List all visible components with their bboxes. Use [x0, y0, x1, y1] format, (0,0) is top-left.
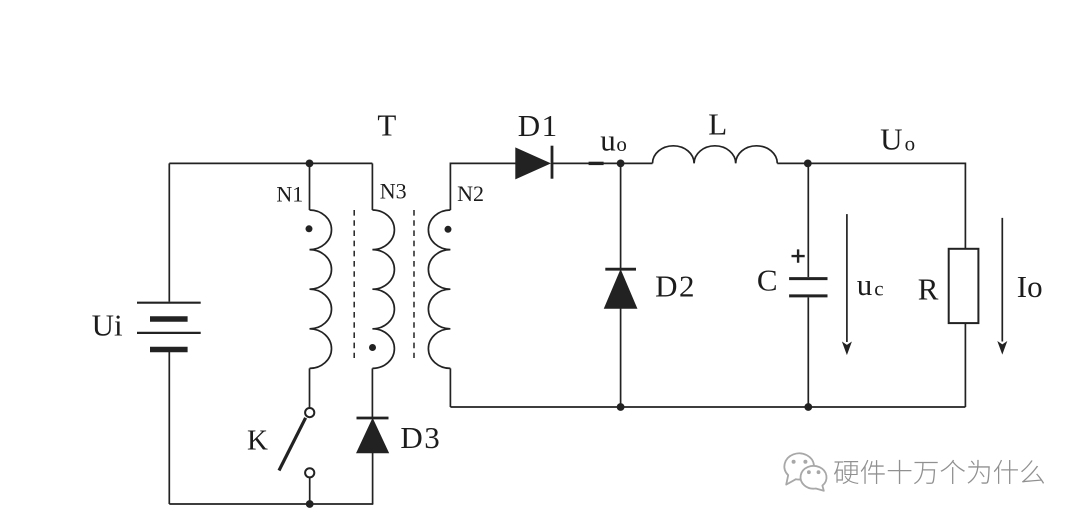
svg-text:N3: N3	[380, 179, 407, 204]
wire switch bottom to bottom rail	[309, 478, 311, 505]
svg-text:N2: N2	[457, 181, 484, 206]
svg-text:o: o	[616, 132, 627, 156]
svg-text:L: L	[708, 107, 727, 142]
diode D3	[357, 418, 389, 453]
transformer core dashed line left	[353, 210, 355, 358]
battery Ui plate long top	[137, 302, 201, 304]
svg-text:D2: D2	[655, 269, 696, 304]
diode D1	[516, 146, 552, 179]
wire node uo to inductor L	[621, 162, 653, 164]
capacitor C top plate	[789, 277, 827, 280]
svg-text:R: R	[918, 271, 939, 306]
wire top rail primary (Ui+ to N1/N3 tops)	[169, 162, 372, 164]
wire node uo down to D2 cathode	[620, 163, 622, 268]
switch K bottom contact circle	[305, 468, 314, 477]
wire node after L down to capacitor C	[807, 163, 809, 277]
wire inductor L to node Uo and right corner	[777, 163, 965, 407]
wire D1 cathode to node uo	[552, 162, 621, 164]
svg-text:u: u	[857, 267, 873, 302]
svg-text:c: c	[874, 276, 883, 300]
watermark wechat logo	[784, 453, 826, 490]
battery Ui plate short thick bottom	[150, 347, 188, 353]
svg-text:N1: N1	[276, 182, 303, 207]
arrow uc (capacitor voltage)	[842, 214, 852, 355]
svg-text:K: K	[247, 425, 268, 457]
junction node dot D2 bottom	[617, 403, 625, 411]
wire capacitor C bottom plate down to bottom rail	[807, 297, 809, 407]
wire from top rail down to N1 winding	[309, 163, 311, 210]
battery Ui plate short thick upper	[150, 316, 188, 322]
inductor L	[653, 146, 778, 164]
svg-text:D3: D3	[400, 420, 441, 455]
svg-text:o: o	[905, 132, 916, 156]
svg-text:Ui: Ui	[92, 307, 123, 342]
svg-text:T: T	[377, 107, 396, 142]
junction node dot C bottom	[804, 403, 812, 411]
wire N2 top up and right to D1 anode	[450, 163, 515, 210]
junction node dot at N1 top rail	[306, 160, 314, 168]
transformer core dashed line right	[413, 210, 415, 358]
junction node dot switch bottom rail	[306, 500, 314, 508]
watermark text 硬件十万个为什么	[834, 460, 1046, 486]
battery Ui plate long lower	[137, 332, 201, 334]
wire N2 bottom down to secondary bottom rail	[449, 368, 451, 407]
transformer winding N1	[310, 210, 332, 368]
wire from top rail down to N3 winding	[371, 163, 373, 210]
diode D2	[605, 269, 637, 308]
svg-text:C: C	[757, 263, 778, 298]
transformer winding N2	[428, 210, 450, 368]
phase dot N1	[306, 225, 313, 232]
resistor R body	[949, 249, 979, 323]
svg-text:U: U	[880, 122, 902, 157]
wire thick stub left of node uo	[589, 162, 604, 165]
svg-text:Io: Io	[1017, 269, 1043, 304]
svg-text:D1: D1	[518, 108, 559, 143]
capacitor + polarity mark	[792, 249, 805, 262]
wire D2 anode down to bottom rail	[620, 308, 622, 407]
switch K top contact circle	[305, 408, 314, 417]
phase dot N3	[369, 344, 376, 351]
wire bottom rail primary	[169, 503, 373, 505]
wire from N1 winding down to switch K	[309, 368, 311, 407]
wire secondary bottom rail	[450, 406, 965, 408]
switch K lever	[279, 418, 306, 471]
arrow Io (load current)	[997, 218, 1007, 355]
wire left side from battery - down to bottom rail	[168, 350, 170, 504]
transformer winding N3	[372, 210, 394, 368]
wire from N3 winding down to D3	[371, 368, 373, 417]
junction node dot after L	[804, 160, 812, 168]
wire left side from top rail down to battery +	[168, 163, 170, 301]
capacitor C bottom plate	[789, 294, 827, 297]
phase dot N2	[445, 226, 452, 233]
wire from D3 anode down to bottom rail	[372, 453, 374, 504]
junction node dot uo	[617, 160, 625, 168]
svg-text:u: u	[600, 123, 616, 158]
